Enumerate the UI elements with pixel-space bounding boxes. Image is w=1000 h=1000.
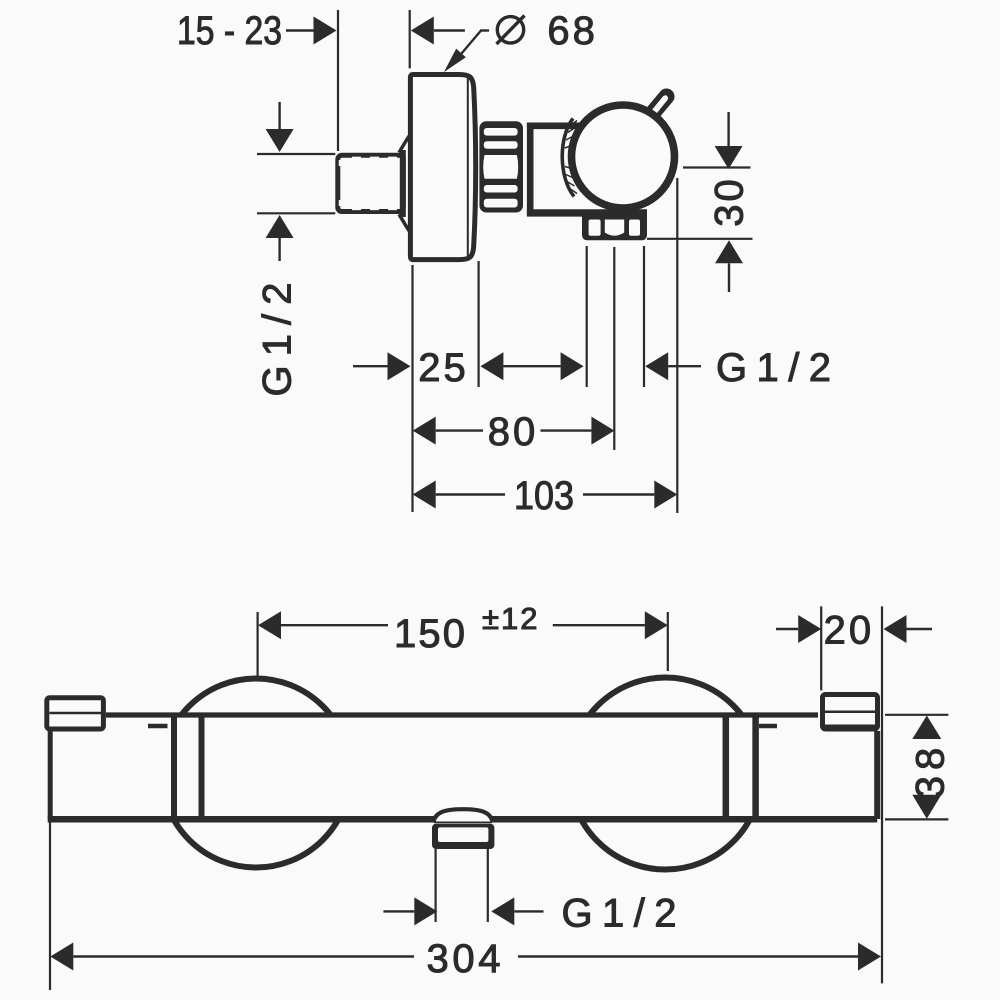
- svg-text:±12: ±12: [482, 601, 540, 636]
- svg-text:150: 150: [394, 612, 465, 656]
- svg-text:G1/2: G1/2: [716, 346, 831, 390]
- svg-text:68: 68: [547, 9, 598, 53]
- svg-text:25: 25: [418, 346, 469, 390]
- svg-text:20: 20: [824, 609, 875, 653]
- svg-text:38: 38: [909, 742, 953, 799]
- svg-text:304: 304: [427, 937, 501, 981]
- svg-text:30: 30: [708, 176, 752, 227]
- svg-text:15 - 23: 15 - 23: [177, 9, 282, 53]
- svg-text:G1/2: G1/2: [256, 283, 300, 397]
- svg-text:80: 80: [488, 410, 539, 454]
- svg-text:G1/2: G1/2: [562, 892, 677, 936]
- svg-text:103: 103: [514, 474, 574, 518]
